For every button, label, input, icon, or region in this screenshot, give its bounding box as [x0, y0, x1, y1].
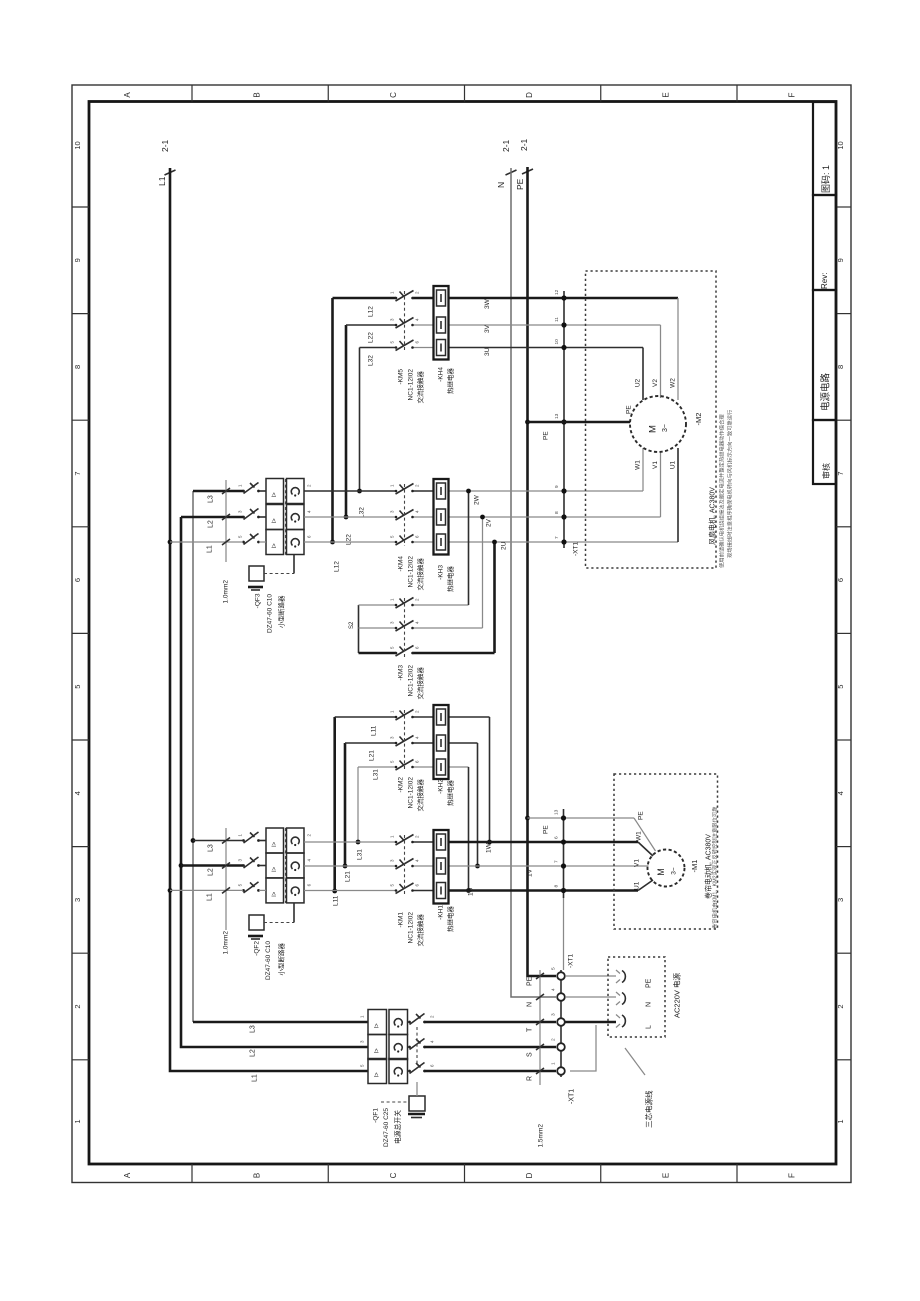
svg-text:L31: L31	[356, 849, 363, 860]
svg-text:13: 13	[554, 413, 560, 419]
svg-text:L2: L2	[250, 1049, 257, 1057]
svg-text:使用前请确认电机绕组接法及额定电流并整定热继电器动作值合理: 使用前请确认电机绕组接法及额定电流并整定热继电器动作值合理	[717, 414, 725, 568]
svg-text:6: 6	[554, 836, 560, 839]
svg-text:C: C	[389, 1172, 398, 1178]
svg-text:10: 10	[73, 141, 82, 149]
svg-text:L12: L12	[333, 561, 340, 572]
svg-text:6: 6	[415, 535, 420, 538]
svg-text:V1: V1	[652, 461, 659, 469]
svg-text:NC1-12I02: NC1-12I02	[407, 665, 414, 697]
svg-text:11: 11	[554, 317, 560, 322]
svg-text:1: 1	[238, 834, 243, 837]
svg-text:3: 3	[390, 736, 395, 739]
svg-text:N: N	[496, 182, 506, 188]
svg-text:1: 1	[390, 710, 395, 713]
svg-text:-XT1: -XT1	[567, 954, 574, 968]
svg-text:卷帘电机由KM1、KM2实现正反转控制注意限位可靠: 卷帘电机由KM1、KM2实现正反转控制注意限位可靠	[710, 806, 718, 929]
svg-text:-M2: -M2	[694, 413, 703, 426]
svg-text:电源电路: 电源电路	[819, 372, 831, 411]
svg-text:交流接触器: 交流接触器	[415, 914, 424, 947]
svg-text:10: 10	[836, 141, 845, 149]
svg-text:热继电器: 热继电器	[445, 906, 454, 933]
svg-text:NC1-12I02: NC1-12I02	[407, 912, 414, 944]
svg-text:3W: 3W	[484, 298, 491, 309]
svg-text:F: F	[787, 1173, 796, 1178]
svg-text:3: 3	[390, 859, 395, 862]
svg-text:小型断路器: 小型断路器	[276, 943, 285, 976]
svg-text:3: 3	[390, 318, 395, 321]
svg-text:三芯电源线: 三芯电源线	[644, 1090, 654, 1128]
svg-text:1.0mm2: 1.0mm2	[222, 580, 229, 604]
svg-text:S2: S2	[349, 621, 355, 629]
svg-text:2: 2	[430, 1015, 435, 1018]
svg-text:8: 8	[554, 511, 560, 514]
svg-text:L2: L2	[208, 868, 215, 876]
svg-text:7: 7	[836, 471, 845, 475]
svg-text:电源总开关: 电源总开关	[393, 1110, 402, 1144]
svg-text:L22: L22	[345, 534, 352, 545]
svg-text:5: 5	[390, 535, 395, 538]
svg-text:1: 1	[238, 484, 243, 487]
svg-text:2: 2	[307, 484, 312, 487]
svg-text:I>: I>	[272, 543, 278, 549]
svg-text:I>: I>	[272, 891, 278, 897]
svg-text:6: 6	[415, 884, 420, 887]
svg-text:5: 5	[360, 1064, 365, 1067]
svg-text:热继电器: 热继电器	[445, 566, 454, 593]
svg-text:V2: V2	[652, 379, 659, 387]
svg-text:1: 1	[390, 835, 395, 838]
svg-text:9: 9	[554, 485, 560, 488]
svg-text:6: 6	[415, 341, 420, 344]
svg-text:-M1: -M1	[690, 860, 699, 873]
svg-text:L12: L12	[367, 306, 374, 317]
svg-text:R: R	[527, 1076, 534, 1081]
svg-text:-KM1: -KM1	[397, 912, 404, 928]
svg-text:1.5mm2: 1.5mm2	[537, 1124, 544, 1148]
svg-text:-KM4: -KM4	[397, 556, 404, 572]
svg-text:PE: PE	[527, 976, 534, 986]
svg-text:1: 1	[390, 291, 395, 294]
svg-text:4: 4	[415, 736, 420, 739]
svg-text:5: 5	[238, 883, 243, 886]
svg-text:A: A	[123, 1172, 132, 1178]
svg-text:L31: L31	[372, 769, 379, 780]
svg-text:-KH1: -KH1	[437, 905, 444, 920]
svg-text:N: N	[527, 1002, 534, 1007]
svg-text:2: 2	[415, 291, 420, 294]
svg-text:现场接线时注意相序确保电机转向与风机标示方向一致可靠运行: 现场接线时注意相序确保电机转向与风机标示方向一致可靠运行	[725, 409, 733, 558]
svg-text:3: 3	[836, 898, 845, 902]
svg-text:L1: L1	[252, 1074, 259, 1082]
svg-text:1V: 1V	[526, 868, 533, 877]
svg-text:4: 4	[415, 318, 420, 321]
svg-text:NC1-12I02: NC1-12I02	[407, 556, 414, 588]
svg-text:L2: L2	[208, 520, 215, 528]
svg-text:交流接触器: 交流接触器	[415, 779, 424, 812]
svg-text:M: M	[647, 425, 658, 433]
svg-text:D: D	[525, 92, 534, 98]
svg-text:I>: I>	[272, 492, 278, 498]
svg-text:5: 5	[390, 341, 395, 344]
svg-text:I>: I>	[272, 841, 278, 847]
svg-text:3: 3	[390, 621, 395, 624]
svg-text:4: 4	[551, 988, 557, 991]
svg-text:L21: L21	[368, 750, 375, 761]
svg-text:4: 4	[836, 791, 845, 795]
svg-text:5: 5	[551, 967, 557, 970]
svg-text:W1: W1	[635, 831, 642, 841]
svg-text:2-1: 2-1	[519, 138, 529, 151]
svg-text:B: B	[252, 92, 261, 97]
svg-text:-KM3: -KM3	[397, 665, 404, 681]
svg-text:A: A	[123, 92, 132, 98]
svg-text:6: 6	[430, 1064, 435, 1067]
svg-text:NC1-12I02: NC1-12I02	[407, 777, 414, 809]
svg-text:10: 10	[554, 339, 560, 345]
svg-text:2-1: 2-1	[160, 139, 170, 152]
svg-text:I>: I>	[272, 518, 278, 524]
svg-text:3V: 3V	[484, 324, 491, 333]
svg-text:2: 2	[415, 835, 420, 838]
svg-text:1: 1	[390, 598, 395, 601]
svg-text:3: 3	[390, 510, 395, 513]
svg-text:DZ47-60 C10: DZ47-60 C10	[266, 594, 273, 633]
svg-text:5: 5	[390, 760, 395, 763]
svg-text:3~: 3~	[662, 424, 669, 432]
svg-text:1: 1	[551, 1062, 557, 1065]
svg-text:6: 6	[307, 883, 312, 886]
svg-text:PE: PE	[542, 431, 549, 440]
svg-text:-KH2: -KH2	[437, 779, 444, 794]
svg-text:3: 3	[73, 898, 82, 902]
svg-text:交流接触器: 交流接触器	[415, 558, 424, 591]
svg-text:1: 1	[390, 484, 395, 487]
svg-text:V1: V1	[633, 859, 640, 867]
svg-text:4: 4	[307, 859, 312, 862]
svg-text:6: 6	[73, 578, 82, 582]
svg-text:热继电器: 热继电器	[445, 368, 454, 395]
svg-text:L11: L11	[370, 725, 377, 736]
svg-text:-QF2: -QF2	[253, 941, 260, 956]
svg-text:NC1-12I02: NC1-12I02	[407, 369, 414, 401]
svg-text:Rev:: Rev:	[820, 273, 829, 289]
svg-text:2-1: 2-1	[501, 139, 511, 152]
svg-text:4: 4	[415, 621, 420, 624]
svg-text:S: S	[527, 1052, 534, 1057]
svg-text:-QF3: -QF3	[254, 593, 261, 608]
svg-text:2: 2	[551, 1038, 557, 1041]
svg-text:L: L	[646, 1025, 653, 1029]
svg-text:F: F	[787, 92, 796, 97]
svg-text:PE: PE	[515, 178, 525, 190]
svg-text:5: 5	[390, 646, 395, 649]
svg-text:3: 3	[238, 859, 243, 862]
svg-text:U1: U1	[633, 881, 640, 890]
svg-text:8: 8	[73, 365, 82, 369]
svg-text:-KM5: -KM5	[397, 369, 404, 385]
svg-text:8: 8	[554, 885, 560, 888]
svg-text:卷帘电动机, AC380V: 卷帘电动机, AC380V	[704, 834, 713, 899]
svg-text:-QF1: -QF1	[372, 1108, 379, 1123]
svg-text:3~: 3~	[670, 867, 677, 875]
svg-text:L1: L1	[207, 893, 214, 901]
svg-text:B: B	[252, 1173, 261, 1178]
svg-text:AC220V 电源: AC220V 电源	[672, 972, 682, 1018]
svg-text:4: 4	[415, 510, 420, 513]
svg-text:风扇电机, AC380V: 风扇电机, AC380V	[708, 487, 717, 545]
svg-text:热继电器: 热继电器	[445, 780, 454, 807]
svg-text:6: 6	[307, 535, 312, 538]
svg-text:3: 3	[360, 1040, 365, 1043]
svg-text:13: 13	[554, 809, 560, 815]
svg-text:8: 8	[836, 365, 845, 369]
svg-text:3: 3	[551, 1013, 557, 1016]
svg-text:2: 2	[307, 834, 312, 837]
svg-text:D: D	[525, 1172, 534, 1178]
svg-text:6: 6	[415, 760, 420, 763]
svg-text:W1: W1	[634, 460, 641, 470]
svg-text:C: C	[389, 92, 398, 98]
svg-text:4: 4	[430, 1040, 435, 1043]
svg-text:E: E	[661, 1173, 670, 1178]
svg-text:3: 3	[238, 510, 243, 513]
svg-text:U2: U2	[634, 378, 641, 387]
svg-text:1U: 1U	[467, 887, 474, 896]
svg-text:2W: 2W	[473, 494, 480, 505]
svg-text:L3: L3	[250, 1025, 257, 1033]
svg-text:I>: I>	[375, 1048, 381, 1054]
svg-text:9: 9	[836, 258, 845, 262]
svg-text:T: T	[527, 1027, 534, 1032]
svg-text:1W: 1W	[485, 842, 492, 853]
svg-text:L11: L11	[332, 895, 339, 906]
svg-text:L1: L1	[157, 176, 167, 186]
svg-text:E: E	[661, 92, 670, 97]
svg-text:2: 2	[836, 1004, 845, 1008]
svg-text:2: 2	[415, 710, 420, 713]
svg-text:图码: 1: 图码: 1	[821, 165, 831, 193]
svg-text:1: 1	[73, 1119, 82, 1123]
svg-text:1.0mm2: 1.0mm2	[222, 931, 229, 955]
svg-text:I>: I>	[375, 1072, 381, 1078]
svg-text:4: 4	[415, 859, 420, 862]
svg-text:DZ47-60 C10: DZ47-60 C10	[265, 941, 272, 980]
svg-text:-XT1: -XT1	[572, 542, 579, 556]
svg-text:9: 9	[73, 258, 82, 262]
svg-text:DZ47-60 C25: DZ47-60 C25	[383, 1108, 390, 1147]
svg-text:-KH4: -KH4	[437, 367, 444, 382]
svg-text:5: 5	[390, 884, 395, 887]
svg-text:I>: I>	[272, 866, 278, 872]
svg-text:L21: L21	[344, 871, 351, 882]
svg-text:PE: PE	[542, 825, 549, 834]
svg-text:L3: L3	[208, 495, 215, 503]
svg-text:7: 7	[73, 471, 82, 475]
svg-text:-KM2: -KM2	[397, 777, 404, 793]
svg-text:2: 2	[73, 1004, 82, 1008]
svg-text:4: 4	[73, 791, 82, 795]
svg-text:2: 2	[415, 598, 420, 601]
svg-text:L32: L32	[358, 507, 365, 518]
svg-text:交流接触器: 交流接触器	[415, 371, 424, 404]
svg-text:PE: PE	[646, 978, 653, 988]
svg-text:L22: L22	[367, 332, 374, 343]
svg-text:L1: L1	[207, 545, 214, 553]
svg-text:7: 7	[554, 536, 560, 539]
svg-text:-KH3: -KH3	[437, 565, 444, 580]
svg-text:审核: 审核	[821, 463, 831, 479]
svg-text:L32: L32	[367, 355, 374, 366]
svg-text:5: 5	[836, 685, 845, 689]
svg-text:PE: PE	[637, 811, 644, 820]
svg-text:4: 4	[307, 510, 312, 513]
svg-text:2U: 2U	[500, 541, 507, 550]
svg-text:1: 1	[836, 1119, 845, 1123]
svg-text:5: 5	[73, 685, 82, 689]
svg-text:I>: I>	[375, 1023, 381, 1029]
svg-text:L3: L3	[208, 844, 215, 852]
svg-text:1: 1	[360, 1015, 365, 1018]
svg-text:-XT1: -XT1	[569, 1089, 576, 1104]
svg-text:交流接触器: 交流接触器	[415, 667, 424, 700]
svg-text:6: 6	[415, 646, 420, 649]
svg-text:7: 7	[554, 860, 560, 863]
svg-text:3U: 3U	[484, 347, 491, 356]
svg-text:U1: U1	[669, 460, 676, 469]
svg-text:W2: W2	[669, 378, 676, 388]
svg-text:6: 6	[836, 578, 845, 582]
svg-text:PE: PE	[625, 405, 632, 414]
svg-text:2: 2	[415, 484, 420, 487]
svg-text:5: 5	[238, 535, 243, 538]
svg-text:N: N	[646, 1002, 653, 1007]
svg-text:12: 12	[554, 289, 560, 295]
svg-text:2V: 2V	[485, 518, 492, 527]
svg-text:小型断路器: 小型断路器	[276, 595, 285, 628]
svg-text:M: M	[656, 868, 666, 876]
